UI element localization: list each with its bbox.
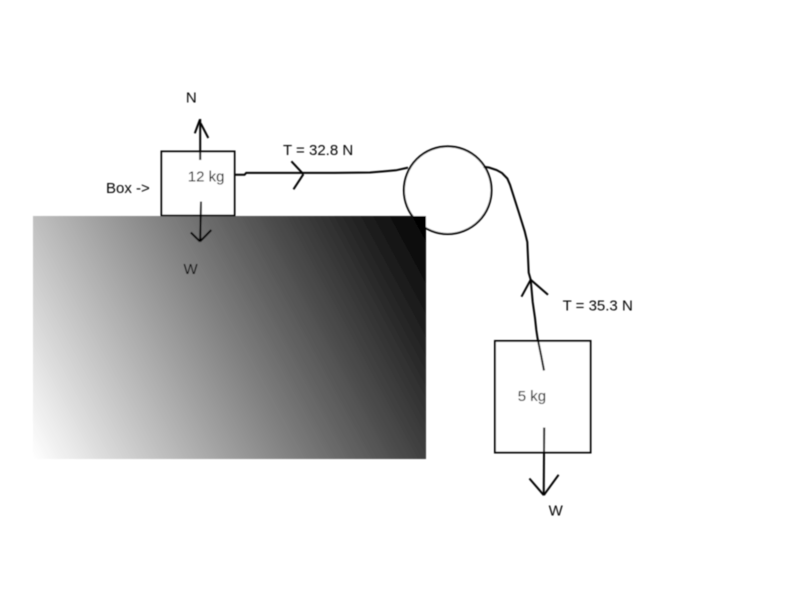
svg-text:W: W <box>549 502 564 519</box>
svg-text:Box ->: Box -> <box>106 180 150 197</box>
svg-text:N: N <box>186 89 197 106</box>
svg-text:T = 35.3 N: T = 35.3 N <box>563 298 633 315</box>
svg-text:W: W <box>184 261 199 278</box>
svg-text:T = 32.8 N: T = 32.8 N <box>283 142 353 159</box>
svg-text:12 kg: 12 kg <box>188 169 225 186</box>
svg-text:5 kg: 5 kg <box>518 388 546 405</box>
